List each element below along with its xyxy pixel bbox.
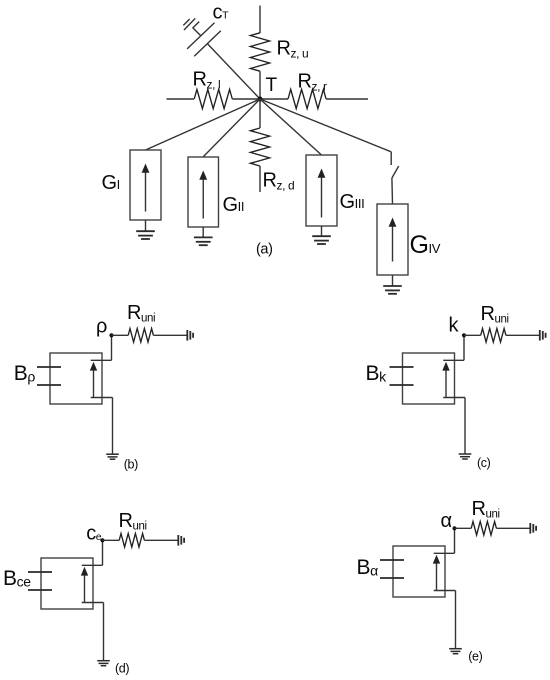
wire node to Runi (d): [103, 539, 120, 541]
wire Bk top bar up to node: [463, 335, 465, 360]
chassis ground stroke 2 (middle long): [184, 18, 195, 30]
wire Balpha top bar up to node: [454, 528, 456, 553]
node b junction dot: [109, 333, 113, 337]
wire Balpha bottom bar down to ground: [455, 591, 457, 649]
source box Brho (b): [50, 353, 102, 404]
resistor Runi (c): [481, 329, 506, 343]
wire node T to Rz,r: [260, 98, 288, 100]
svg-text:T: T: [266, 75, 278, 96]
wire Rz,r to right rail end: [326, 98, 368, 100]
Balpha upper left plate: [380, 559, 404, 561]
Bce lower left plate: [28, 589, 52, 591]
node d junction dot: [100, 538, 104, 542]
wire node to Runi (e): [455, 527, 472, 529]
Brho top bar: [91, 359, 112, 361]
Bk top bar: [443, 359, 464, 361]
wire node to Runi (b): [112, 334, 129, 336]
wire switch upper lead: [390, 152, 392, 165]
resistor Runi (b): [128, 329, 153, 343]
Brho arrow: [93, 370, 95, 397]
svg-text:(a): (a): [256, 242, 273, 258]
ground below (b): [106, 453, 119, 455]
side ground (b): [186, 330, 188, 341]
ground below (d): [97, 660, 110, 662]
Bce arrow: [84, 575, 86, 602]
source box Bk (c): [403, 353, 455, 404]
current source GIII arrow: [321, 177, 323, 218]
wire GII to ground: [202, 227, 204, 237]
wire Bk bottom bar down to ground: [464, 398, 466, 454]
Brho lower left plate: [37, 384, 61, 386]
ground below GII: [194, 236, 213, 238]
Bk bottom bar: [443, 397, 465, 399]
svg-text:ρ: ρ: [96, 316, 107, 338]
node c junction dot: [462, 333, 466, 337]
node T junction dot: [258, 97, 263, 102]
wire left rail into Rz,l: [167, 98, 195, 100]
wire Runi to side ground (c): [506, 334, 539, 336]
wire node T to capacitor CT: [208, 44, 260, 99]
Balpha top bar: [434, 552, 455, 554]
side ground (c): [539, 330, 541, 341]
wire below Rz,d (open end): [259, 166, 261, 192]
svg-text:k: k: [449, 315, 460, 337]
svg-text:(e): (e): [468, 650, 482, 664]
wire node T to GIII: [260, 99, 322, 155]
current source GIII box: [306, 155, 337, 226]
svg-text:(c): (c): [477, 456, 491, 470]
side ground (d): [177, 535, 179, 546]
current source GI arrow: [145, 172, 147, 212]
capacitor CT lower plate: [194, 31, 221, 57]
wire Runi to side ground (b): [153, 334, 186, 336]
source box Balpha (e): [393, 546, 445, 597]
ground below (c): [459, 453, 472, 455]
ground below GIV: [383, 285, 402, 287]
svg-text:(b): (b): [124, 457, 138, 471]
wire Rz,u to node T: [259, 71, 261, 99]
Balpha bottom bar: [434, 590, 456, 592]
wire node T down to Rz,d: [259, 99, 261, 128]
ground below GI: [136, 230, 155, 232]
wire node T to GII: [203, 99, 260, 157]
wire Bce top bar up to node: [102, 540, 104, 565]
wire node T to GI: [146, 99, 261, 150]
resistor Rz,u: [250, 33, 269, 71]
Brho upper left plate: [37, 366, 61, 368]
wire switch to GIV: [391, 178, 394, 204]
Balpha lower left plate: [380, 577, 404, 579]
current source GII arrow: [202, 179, 204, 219]
chassis ground stroke 3 (short): [183, 19, 189, 25]
source box Bce (d): [41, 558, 93, 609]
current source GIV box: [377, 204, 408, 275]
resistor Rz,d: [250, 128, 269, 166]
current source GIV arrow: [392, 226, 394, 262]
switch blade (open): [392, 166, 399, 178]
wire GIII to ground: [321, 226, 323, 236]
Brho bottom bar: [91, 397, 113, 399]
resistor Rz,l: [194, 89, 232, 108]
side ground (e): [529, 523, 531, 534]
wire node T to switch: [260, 99, 391, 152]
Bce upper left plate: [28, 571, 52, 573]
ground below (e): [449, 648, 462, 650]
wire Brho top bar up to node: [111, 335, 113, 360]
svg-text:α: α: [441, 510, 452, 532]
wire CT plate to chassis ground: [193, 28, 201, 36]
capacitor CT upper plate: [187, 23, 214, 49]
svg-text:(d): (d): [115, 661, 129, 675]
wire Brho bottom bar down to ground: [112, 398, 114, 454]
Bce bottom bar: [82, 602, 104, 604]
resistor Runi (d): [119, 534, 144, 548]
current source GI box: [130, 150, 161, 220]
wire node to Runi (c): [464, 334, 481, 336]
wire from top edge down to Rz,u: [259, 6, 261, 34]
wire GIV to ground: [392, 275, 394, 286]
wire Rz,l to node T: [232, 98, 260, 100]
Bce top bar: [82, 564, 103, 566]
Bk lower left plate: [390, 384, 414, 386]
chassis ground stroke 1 (at wire): [193, 22, 200, 29]
resistor Runi (e): [471, 522, 496, 536]
wire GI to ground: [145, 220, 147, 231]
Bk arrow: [445, 370, 447, 397]
wire Bce bottom bar down to ground: [103, 603, 105, 661]
resistor Rz,r: [288, 89, 326, 108]
node e junction dot: [452, 526, 456, 530]
Balpha arrow: [436, 563, 438, 590]
ground below GIII: [312, 235, 331, 237]
Bk upper left plate: [390, 366, 414, 368]
current source GII box: [188, 157, 219, 227]
wire Runi to side ground (d): [144, 539, 177, 541]
wire Runi to side ground (e): [496, 527, 529, 529]
